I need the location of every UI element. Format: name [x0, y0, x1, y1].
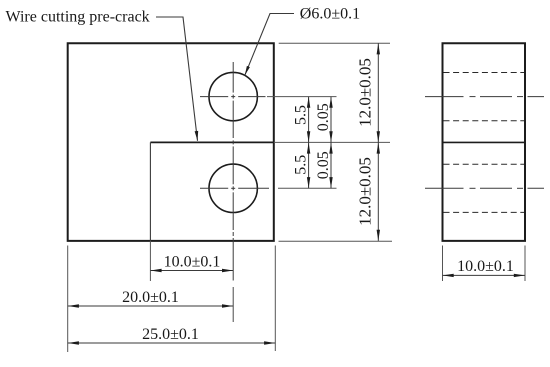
upper hole center extension line: [267, 96, 337, 98]
side view lower hole centerline: [425, 187, 544, 189]
side left extension line: [442, 246, 444, 282]
dimension 0.05 lower: [315, 142, 333, 188]
dimension 12.0±0.05 upper: [356, 43, 381, 142]
leader to upper hole: [245, 14, 294, 76]
right edge extension line below: [274, 246, 276, 352]
svg-text:20.0±0.1: 20.0±0.1: [122, 289, 179, 306]
notch edge extension line below: [149, 241, 151, 281]
holes vertical centerline: [232, 62, 234, 281]
upper hole horizontal centerline: [200, 96, 266, 98]
upper hole: [209, 72, 257, 120]
lower hole horizontal centerline: [200, 187, 269, 189]
dimension 0.05 upper: [315, 97, 333, 143]
bottom edge extension line: [279, 240, 393, 242]
top edge extension line: [279, 42, 390, 44]
svg-text:10.0±0.1: 10.0±0.1: [164, 253, 221, 270]
leader to pre-crack: [156, 17, 198, 141]
dimension 20.0±0.1 (front): [68, 289, 234, 308]
dimension 10.0±0.1 (side): [443, 258, 526, 277]
dimension 5.5 lower: [292, 142, 310, 188]
dimension 10.0±0.1 (front): [150, 253, 233, 272]
pre-crack bond line: [150, 141, 273, 143]
svg-text:25.0±0.1: 25.0±0.1: [142, 326, 199, 343]
svg-text:Wire cutting pre-crack: Wire cutting pre-crack: [6, 9, 150, 26]
hidden line upper hole top: [444, 72, 525, 74]
svg-text:12.0±0.05: 12.0±0.05: [356, 157, 375, 226]
notch vertical edge: [149, 142, 151, 241]
label Ø6.0±0.1: [300, 6, 360, 23]
lower hole center extension line: [278, 187, 337, 189]
svg-text:0.05: 0.05: [315, 151, 332, 179]
hidden line lower hole bottom: [444, 211, 525, 213]
side right extension line: [524, 246, 526, 282]
dimension 12.0±0.05 lower: [356, 142, 381, 241]
side view bond line: [443, 141, 526, 143]
dimension 5.5 upper: [292, 97, 310, 143]
dimension 25.0±0.1 (front): [68, 326, 276, 345]
svg-text:Ø6.0±0.1: Ø6.0±0.1: [300, 6, 360, 23]
hidden line upper hole bottom: [444, 120, 525, 122]
left edge extension line below: [67, 246, 69, 353]
crack line extension: [274, 141, 390, 143]
side view upper hole centerline: [425, 96, 544, 98]
side view outline: [443, 43, 526, 241]
front view outline: [68, 43, 274, 241]
hole axis extension for 20.0 dim: [232, 287, 234, 322]
label Wire cutting pre-crack: [6, 9, 150, 26]
svg-text:10.0±0.1: 10.0±0.1: [457, 258, 514, 275]
lower hole: [209, 164, 257, 212]
svg-text:5.5: 5.5: [292, 155, 309, 175]
hidden line lower hole top: [444, 163, 525, 165]
svg-text:0.05: 0.05: [315, 103, 332, 131]
svg-text:5.5: 5.5: [292, 105, 309, 125]
svg-text:12.0±0.05: 12.0±0.05: [356, 58, 375, 127]
